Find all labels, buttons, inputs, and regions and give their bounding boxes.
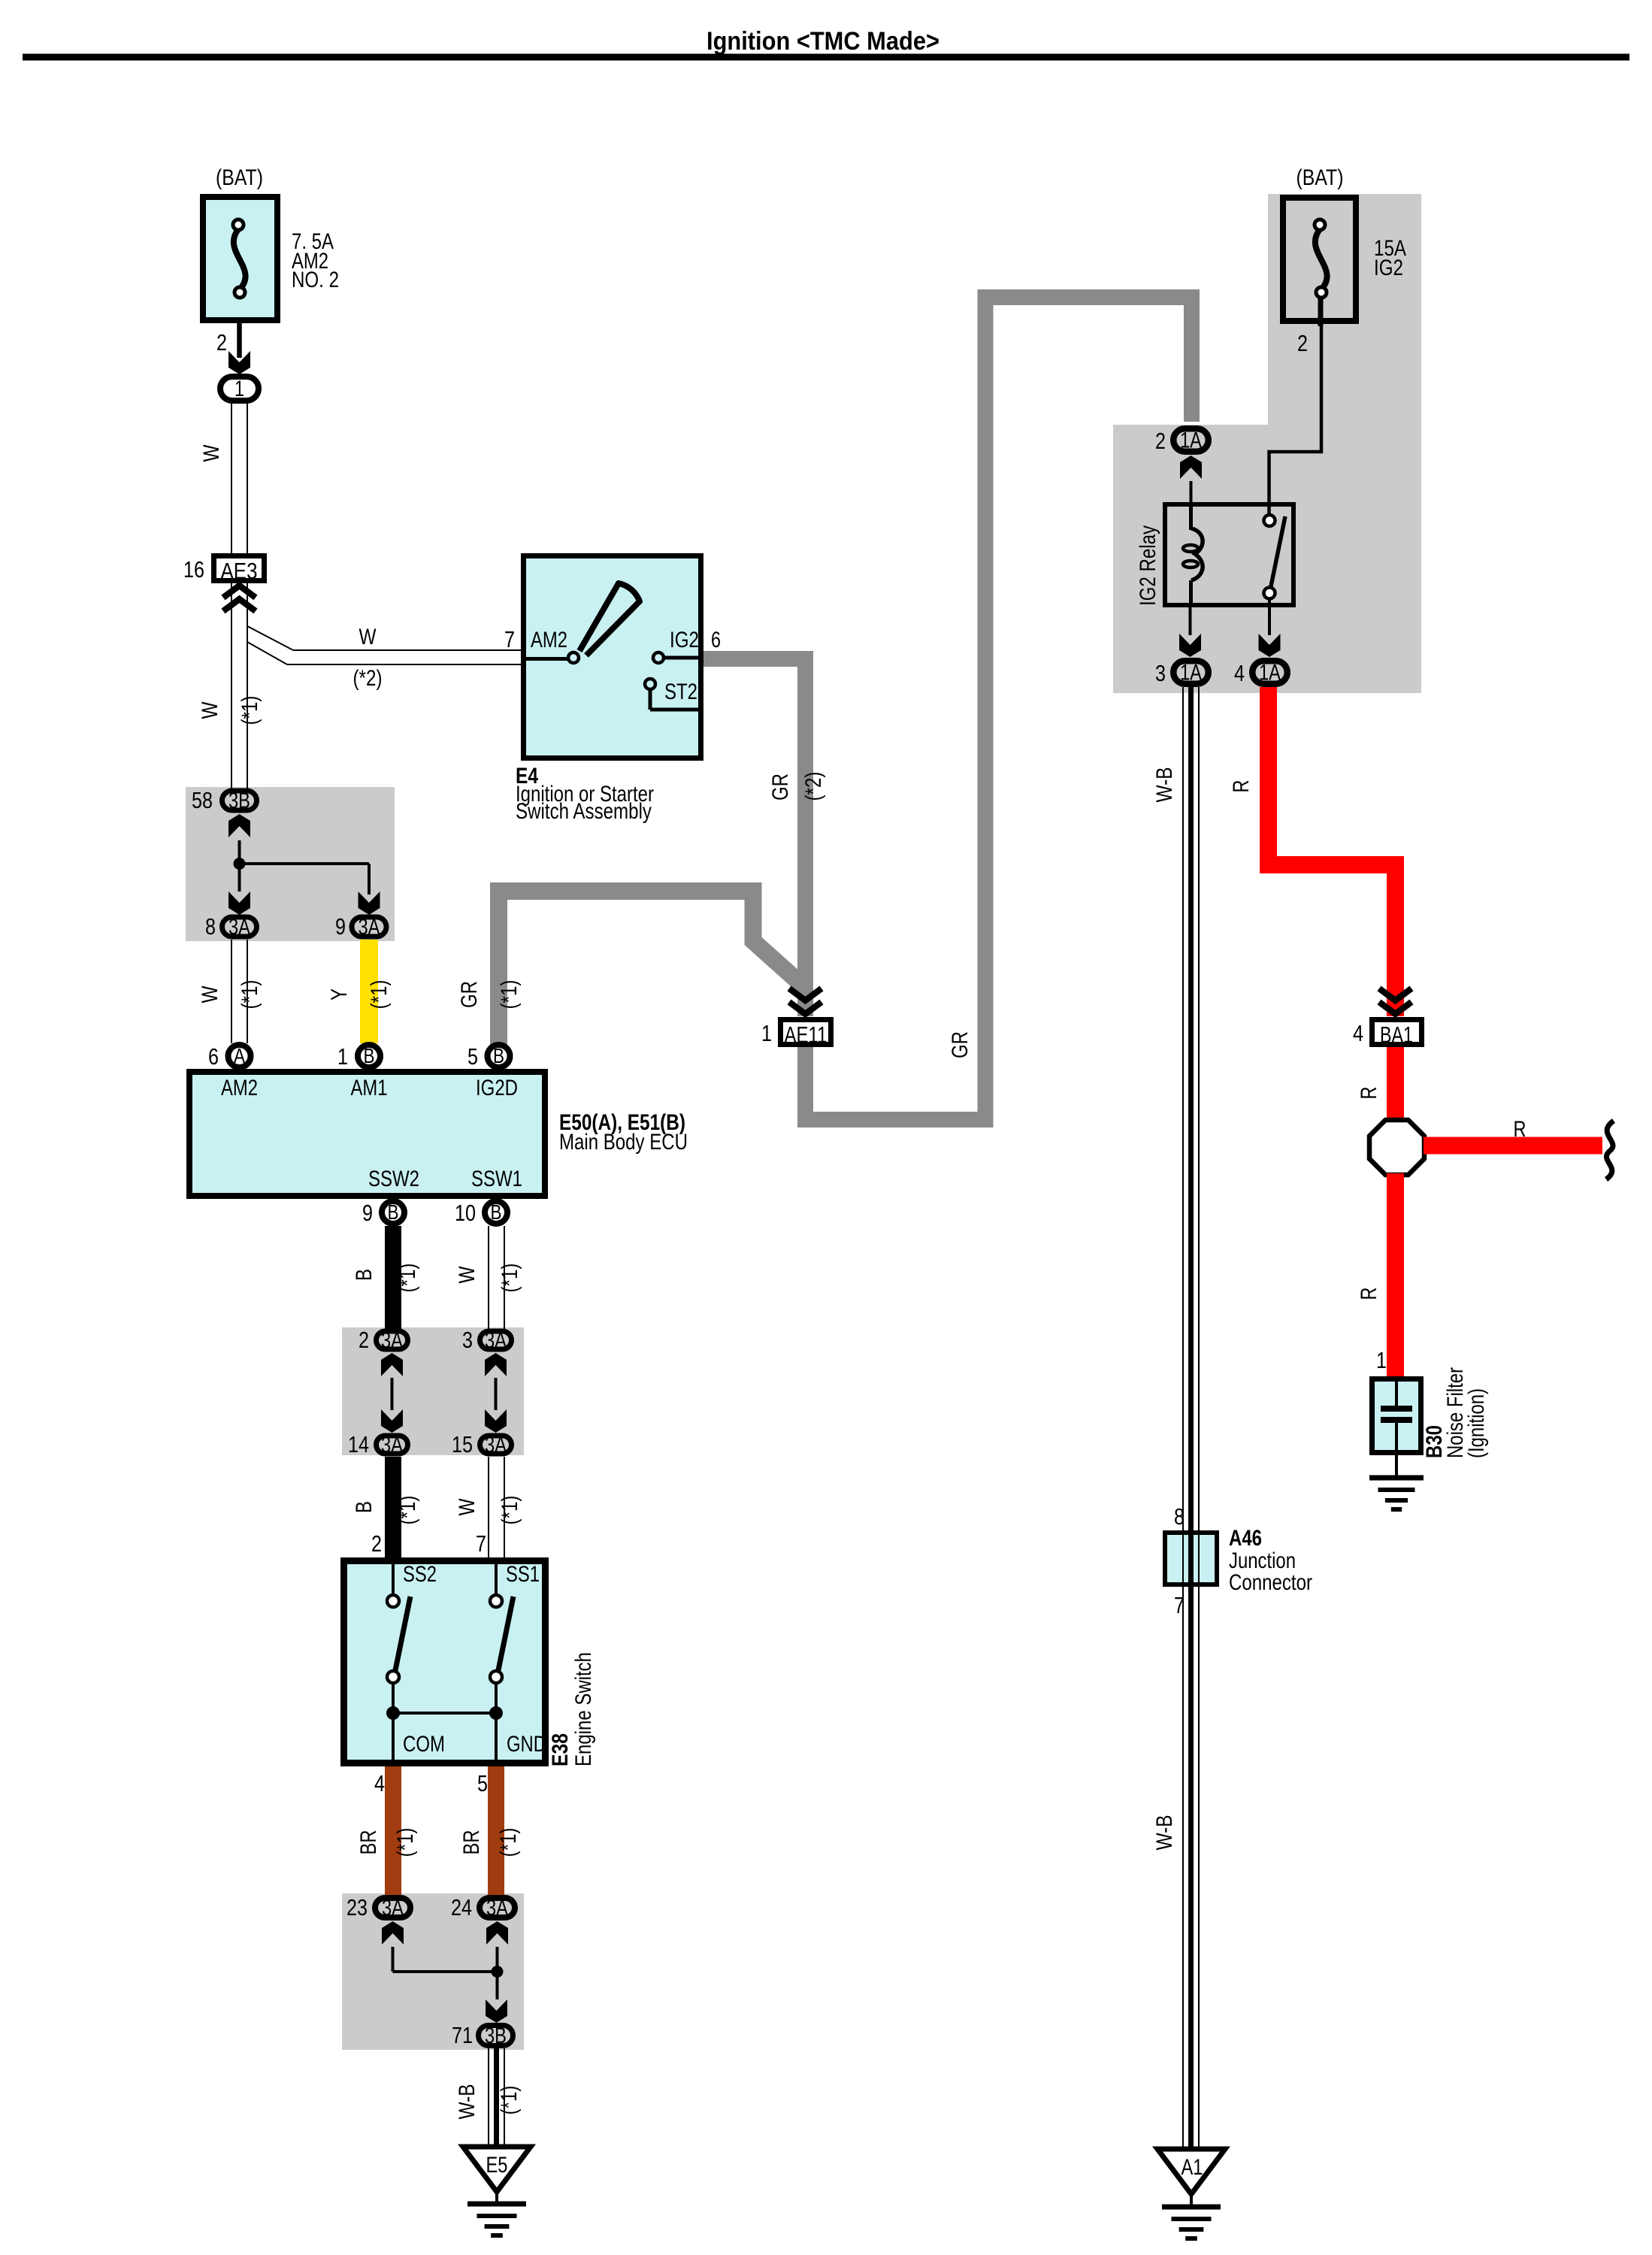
- svg-text:2: 2: [216, 329, 227, 356]
- connector oval 8 3A: [222, 917, 257, 937]
- svg-text:GR: GR: [948, 1031, 973, 1058]
- E4 IG2 contact: [653, 652, 664, 663]
- svg-text:1A: 1A: [1180, 428, 1202, 453]
- svg-text:5: 5: [467, 1043, 478, 1070]
- svg-text:B: B: [352, 1269, 377, 1281]
- gray background right (IG2 relay + fuse block): [1113, 194, 1421, 693]
- svg-text:7: 7: [504, 626, 515, 652]
- svg-text:(*1): (*1): [395, 1264, 420, 1293]
- ECU pin circle 6 A: [228, 1045, 251, 1067]
- gray harness background left upper (connector 3B/3A block): [186, 787, 395, 941]
- wire W 15 to SS1 (*1): [488, 1457, 489, 1557]
- svg-text:(*2): (*2): [353, 666, 383, 691]
- wire 3B to junction: [238, 840, 241, 864]
- wire R octagon to right break: [1424, 1137, 1602, 1155]
- svg-text:A1: A1: [1182, 2155, 1203, 2180]
- svg-text:GR: GR: [768, 773, 793, 801]
- svg-text:R: R: [1514, 1117, 1526, 1142]
- svg-text:B: B: [352, 1501, 377, 1513]
- wire: fuse lead: [237, 323, 242, 358]
- arrow up into 23: [382, 1921, 404, 1945]
- connector oval 24 3A: [480, 1898, 515, 1918]
- wire W 8 to AM2 pin (*1): [231, 940, 232, 1043]
- ECU pin circle 9 B: [382, 1201, 404, 1224]
- svg-text:B: B: [493, 1044, 504, 1067]
- svg-text:2: 2: [1297, 330, 1308, 356]
- svg-text:SS1: SS1: [506, 1562, 540, 1587]
- ground E5: [463, 2147, 531, 2192]
- title rule: [23, 54, 1629, 61]
- E4 AM2 contact: [524, 657, 567, 661]
- wire GR AE11 to IG2D (*1): [499, 891, 803, 1046]
- svg-text:4: 4: [374, 1770, 385, 1796]
- arrow down into 8: [228, 891, 250, 915]
- connector 16 AE3: [214, 556, 265, 581]
- svg-text:3A: 3A: [382, 1896, 404, 1921]
- ground A1: [1157, 2149, 1225, 2194]
- gray harness background left middle (3A/3A block): [342, 1327, 524, 1455]
- SS1 contact: [495, 1560, 498, 1595]
- svg-text:E38: E38: [548, 1733, 573, 1766]
- svg-text:(*1): (*1): [395, 1496, 420, 1525]
- connector 1 AE11: [781, 1020, 831, 1045]
- connector oval 3 3A: [480, 1331, 512, 1349]
- svg-text:(*1): (*1): [238, 696, 262, 725]
- svg-text:E5: E5: [486, 2153, 508, 2178]
- arrow down into 9: [359, 891, 380, 915]
- connector oval 23 3A: [375, 1898, 410, 1918]
- svg-text:W-B: W-B: [455, 2084, 480, 2120]
- svg-text:SSW1: SSW1: [471, 1167, 522, 1191]
- svg-text:IG2: IG2: [670, 628, 699, 652]
- svg-text:W: W: [455, 1266, 480, 1284]
- svg-text:3B: 3B: [485, 2023, 507, 2048]
- splice octagon node: [1369, 1120, 1424, 1175]
- svg-text:Y: Y: [327, 988, 352, 1000]
- wire B SSW2 to 2 (*1): [385, 1226, 401, 1329]
- svg-text:3: 3: [462, 1327, 473, 1353]
- svg-text:IG2D: IG2D: [476, 1076, 518, 1100]
- connector oval 15 3A: [480, 1436, 512, 1454]
- svg-text:3A: 3A: [359, 915, 380, 940]
- svg-text:IG2: IG2: [1374, 256, 1403, 280]
- svg-text:Ignition <TMC Made>: Ignition <TMC Made>: [706, 27, 939, 56]
- arrows between 2 and 14: [381, 1353, 403, 1376]
- svg-text:AE3: AE3: [221, 558, 258, 584]
- wire W-B A46 to ground A1: [1182, 1530, 1184, 2149]
- wire R relay 4 to BA1: [1269, 687, 1396, 1016]
- wire W-B 71 to ground (*1): [488, 2048, 489, 2147]
- ECU pin circle 1 B: [358, 1045, 380, 1067]
- wire BR COM to 23 (*1): [385, 1766, 401, 1895]
- svg-text:3A: 3A: [485, 1433, 507, 1457]
- svg-text:Main Body ECU: Main Body ECU: [559, 1130, 688, 1155]
- ignition switch E4 box: [524, 556, 701, 758]
- svg-text:(*1): (*1): [238, 980, 262, 1009]
- arrow up into 24: [486, 1921, 508, 1945]
- connector oval 14 3A: [377, 1436, 408, 1454]
- wire W-B relay to A46: [1182, 687, 1184, 1530]
- svg-text:W-B: W-B: [1152, 767, 1177, 803]
- svg-text:SSW2: SSW2: [368, 1167, 419, 1191]
- svg-text:(*2): (*2): [801, 772, 826, 801]
- svg-text:BR: BR: [459, 1830, 484, 1855]
- wire W SSW1 to 3 (*1): [488, 1226, 489, 1329]
- svg-text:A46: A46: [1229, 1526, 1262, 1551]
- junction dot: [234, 858, 246, 870]
- connector oval 9 3A: [352, 917, 386, 937]
- svg-text:14: 14: [348, 1431, 369, 1457]
- IG2 relay box: [1165, 504, 1293, 605]
- svg-text:1: 1: [234, 377, 244, 401]
- wire Y 9 to AM1 pin (*1): [360, 940, 378, 1043]
- svg-text:W: W: [198, 985, 222, 1003]
- svg-text:W: W: [198, 701, 222, 719]
- fuse 15A IG2: [1283, 198, 1356, 321]
- chevrons into BA1: [1379, 988, 1411, 1000]
- svg-text:1: 1: [1376, 1347, 1387, 1373]
- svg-text:R: R: [1229, 780, 1254, 793]
- svg-text:15: 15: [452, 1431, 473, 1457]
- svg-text:A: A: [234, 1044, 245, 1067]
- connector oval 2 1A: [1173, 428, 1209, 452]
- connector 4 BA1: [1372, 1020, 1422, 1045]
- break squiggle: [1606, 1121, 1614, 1179]
- relay coil: [1189, 504, 1193, 530]
- svg-text:AM1: AM1: [351, 1076, 388, 1100]
- svg-text:(*1): (*1): [497, 2086, 522, 2115]
- svg-text:R: R: [1357, 1087, 1381, 1100]
- wire GR AE11 to IG2 relay: [806, 298, 1192, 1120]
- junction dots and COM/GND link: [386, 1706, 400, 1720]
- svg-text:4: 4: [1234, 660, 1245, 686]
- svg-text:16: 16: [183, 556, 204, 583]
- ECU pin circle 5 B: [488, 1045, 510, 1067]
- wire R BA1 to octagon: [1387, 1047, 1404, 1121]
- svg-text:5: 5: [477, 1770, 488, 1796]
- wire W branch to E4 AM2 (*2): [247, 626, 293, 650]
- connector oval 3 1A: [1173, 661, 1209, 684]
- svg-text:W: W: [359, 625, 377, 649]
- svg-text:COM: COM: [403, 1732, 445, 1757]
- svg-text:R: R: [1357, 1288, 1381, 1300]
- svg-text:Engine Switch: Engine Switch: [571, 1652, 596, 1766]
- svg-text:3A: 3A: [381, 1328, 403, 1353]
- svg-text:W: W: [455, 1498, 480, 1516]
- svg-text:3B: 3B: [228, 788, 250, 813]
- svg-text:(*1): (*1): [367, 980, 392, 1009]
- svg-text:8: 8: [1174, 1503, 1185, 1530]
- svg-text:58: 58: [192, 787, 213, 813]
- svg-text:10: 10: [455, 1200, 476, 1226]
- svg-text:AE11: AE11: [785, 1022, 828, 1048]
- connector oval 4 1A: [1252, 661, 1287, 684]
- svg-text:IG2 Relay: IG2 Relay: [1136, 525, 1160, 606]
- svg-text:W-B: W-B: [1152, 1815, 1177, 1851]
- ECU pin circle 10 B: [485, 1201, 507, 1224]
- svg-text:BA1: BA1: [1380, 1022, 1413, 1048]
- connector oval 2 3A: [377, 1331, 408, 1349]
- chevrons below AE3: [223, 586, 256, 598]
- connector oval 58 3B: [222, 791, 257, 810]
- svg-text:3: 3: [1155, 660, 1166, 686]
- svg-text:(Ignition): (Ignition): [1464, 1388, 1489, 1458]
- arrow up into 3B: [228, 814, 250, 837]
- arrow into connector 1: [228, 351, 250, 374]
- svg-text:(*1): (*1): [497, 980, 522, 1009]
- engine switch E38 box: [344, 1561, 546, 1763]
- wire BR GND to 24 (*1): [488, 1766, 504, 1895]
- svg-text:71: 71: [452, 2022, 473, 2048]
- svg-text:2: 2: [1155, 428, 1166, 454]
- svg-text:3A: 3A: [486, 1896, 508, 1921]
- svg-text:(*1): (*1): [498, 1496, 522, 1525]
- svg-text:ST2: ST2: [664, 680, 697, 704]
- svg-text:6: 6: [208, 1043, 219, 1070]
- svg-text:2: 2: [371, 1530, 382, 1557]
- svg-text:B: B: [491, 1200, 502, 1224]
- svg-text:(*1): (*1): [393, 1828, 418, 1857]
- svg-text:3A: 3A: [228, 915, 250, 940]
- svg-text:(BAT): (BAT): [1296, 165, 1344, 190]
- gray harness background left lower (3A/3B block): [342, 1893, 524, 2050]
- wire fuse IG2 to relay switch: [1269, 324, 1322, 514]
- noise filter B30: [1372, 1379, 1421, 1453]
- connector oval 71 3B: [479, 2026, 513, 2046]
- E4 key lever: [579, 583, 640, 655]
- wire R octagon down to B30: [1387, 1173, 1404, 1378]
- svg-text:24: 24: [451, 1894, 472, 1921]
- svg-text:2: 2: [359, 1327, 369, 1353]
- svg-text:6: 6: [711, 628, 721, 652]
- svg-text:GND: GND: [507, 1732, 546, 1757]
- svg-text:1: 1: [761, 1020, 772, 1046]
- SS2 contact: [392, 1560, 395, 1595]
- svg-text:AM2: AM2: [221, 1076, 258, 1100]
- svg-text:3A: 3A: [485, 1328, 507, 1353]
- arrow down into 71: [486, 1999, 507, 2023]
- svg-text:8: 8: [205, 913, 216, 940]
- svg-text:23: 23: [346, 1894, 368, 1921]
- junction connector A46: [1165, 1533, 1217, 1585]
- svg-text:9: 9: [335, 913, 346, 940]
- wire GR E4 IG2 to AE11 (*2): [703, 659, 806, 1017]
- svg-text:7: 7: [476, 1530, 486, 1557]
- svg-text:B: B: [388, 1200, 399, 1224]
- arrow up into 2 1A: [1180, 456, 1202, 479]
- svg-text:1: 1: [337, 1043, 348, 1070]
- svg-text:SS2: SS2: [403, 1562, 437, 1587]
- svg-text:GR: GR: [457, 981, 482, 1008]
- E4 ST2 contact: [645, 679, 655, 689]
- main body ECU box E50/E51: [189, 1072, 545, 1196]
- svg-text:B: B: [364, 1044, 375, 1067]
- wire W fuse to AE3: [231, 403, 232, 553]
- svg-text:Connector: Connector: [1229, 1570, 1312, 1595]
- connector oval 1: [220, 377, 259, 401]
- wire B 14 to SS2 (*1): [385, 1457, 401, 1557]
- svg-text:9: 9: [362, 1200, 373, 1226]
- svg-text:(*1): (*1): [496, 1828, 521, 1857]
- relay switch: [1264, 515, 1275, 526]
- svg-text:1A: 1A: [1180, 661, 1202, 686]
- arrows between 3 and 15: [485, 1353, 507, 1376]
- svg-text:AM2: AM2: [531, 628, 567, 652]
- ground below B30: [1395, 1455, 1398, 1476]
- svg-text:(BAT): (BAT): [216, 165, 263, 190]
- chevrons into AE11: [789, 988, 821, 1000]
- svg-text:(*1): (*1): [498, 1264, 522, 1293]
- relay leads to ovals: [1189, 607, 1192, 635]
- svg-text:W: W: [199, 444, 224, 462]
- link wires to junction: [392, 1947, 395, 1972]
- svg-text:4: 4: [1353, 1020, 1363, 1046]
- wire junction to 9: [240, 862, 370, 865]
- fuse 7.5A AM2 NO.2: [203, 197, 277, 320]
- svg-text:1A: 1A: [1259, 661, 1281, 686]
- wire junction down to 8: [238, 864, 241, 891]
- wire W AE3 to 3B (*1): [231, 583, 232, 788]
- svg-text:3A: 3A: [381, 1433, 403, 1457]
- svg-text:BR: BR: [356, 1830, 381, 1855]
- svg-text:Switch Assembly: Switch Assembly: [516, 799, 652, 824]
- svg-text:NO. 2: NO. 2: [292, 268, 339, 292]
